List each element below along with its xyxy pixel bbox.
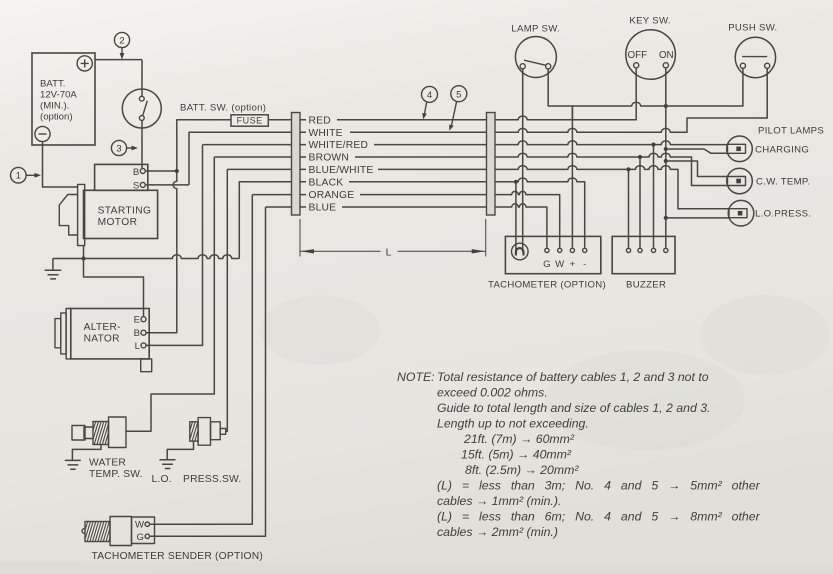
svg-text:WHITE/RED: WHITE/RED bbox=[309, 140, 369, 151]
terminal E of alternator bbox=[134, 315, 146, 326]
wire motor body down to ground line bbox=[83, 246, 85, 259]
svg-text:exceed 0.002 ohms.: exceed 0.002 ohms. bbox=[437, 386, 548, 400]
lamp switch bbox=[511, 24, 560, 78]
connector block right bbox=[487, 113, 496, 216]
wire ON to charging lamp lower lead bbox=[666, 149, 728, 153]
wire BLUE left stub bbox=[266, 206, 292, 208]
svg-text:Length up to not exceeding.: Length up to not exceeding. bbox=[437, 417, 589, 431]
tachometer box bbox=[505, 236, 600, 273]
svg-text:(option): (option) bbox=[40, 112, 73, 123]
wire BLUE/WHITE label segment bbox=[300, 165, 487, 176]
wire BLACK drop to tachometer lamp bbox=[515, 182, 517, 252]
svg-text:Guide to total length and size: Guide to total length and size of cables… bbox=[437, 401, 710, 415]
svg-text:1: 1 bbox=[16, 171, 21, 182]
wire WHITE right to push sw bbox=[495, 68, 767, 132]
svg-text:TACHOMETER (OPTION): TACHOMETER (OPTION) bbox=[488, 280, 606, 291]
wire sender G to BLUE drop bbox=[150, 207, 266, 536]
svg-text:BROWN: BROWN bbox=[309, 153, 349, 164]
svg-text:W: W bbox=[135, 520, 145, 531]
wire ORANGE right to tachometer W bbox=[495, 191, 560, 247]
tachometer sender body bbox=[79, 517, 155, 546]
wire BLUE right to tachometer G bbox=[495, 204, 547, 248]
svg-text:G: G bbox=[543, 259, 550, 270]
svg-text:(L) = less than 6m; No. 4 and: (L) = less than 6m; No. 4 and 5 → 8mm² o… bbox=[437, 510, 761, 524]
wire BROWN left stub bbox=[214, 156, 291, 158]
terminal B of starting motor bbox=[133, 167, 145, 178]
wire ORANGE left stub bbox=[252, 194, 291, 196]
svg-text:W: W bbox=[555, 259, 565, 270]
svg-text:LAMP SW.: LAMP SW. bbox=[511, 24, 560, 35]
wire switch bottom to starting motor B bbox=[141, 120, 143, 168]
svg-text:BLUE/WHITE: BLUE/WHITE bbox=[309, 165, 374, 176]
wire sender W to ORANGE drop bbox=[150, 195, 253, 525]
svg-text:4: 4 bbox=[427, 90, 432, 101]
wire BLUE/WHITE left stub bbox=[227, 168, 291, 170]
note text block bbox=[397, 370, 761, 539]
svg-text:15ft. (5m) → 40mm²: 15ft. (5m) → 40mm² bbox=[461, 448, 572, 462]
wire water temp sw to ground bbox=[72, 445, 101, 461]
wire W/R drop to buzzer t3 bbox=[653, 145, 655, 248]
starting motor main box bbox=[84, 190, 158, 238]
wire water temp sw to BROWN drop bbox=[126, 157, 214, 431]
starting motor nose housing bbox=[59, 195, 77, 236]
wire BLACK left riser from ground bus bbox=[239, 182, 291, 259]
wire L.O. press sw to ground bbox=[167, 441, 193, 460]
wire RED link drop to tachometer plus bbox=[571, 106, 573, 248]
svg-text:WHITE: WHITE bbox=[309, 128, 343, 139]
svg-text:FUSE: FUSE bbox=[237, 116, 263, 126]
wire L.O. press sw to BLUE/WHITE drop bbox=[226, 169, 228, 431]
ground symbol (L.O. press sw) bbox=[159, 460, 175, 469]
svg-text:3: 3 bbox=[116, 144, 121, 155]
svg-text:E: E bbox=[134, 315, 140, 326]
svg-text:C.W. TEMP.: C.W. TEMP. bbox=[756, 177, 810, 188]
terminal W of sender bbox=[135, 520, 150, 531]
svg-text:OFF: OFF bbox=[628, 50, 648, 61]
svg-text:21ft. (7m) → 60mm²: 21ft. (7m) → 60mm² bbox=[463, 432, 575, 446]
wire ON to C.W. temp lamp upper lead bbox=[666, 161, 728, 177]
svg-text:ALTER-: ALTER- bbox=[84, 322, 121, 333]
svg-text:BATT. SW. (option): BATT. SW. (option) bbox=[180, 103, 266, 114]
svg-text:(MIN.).: (MIN.). bbox=[40, 101, 69, 112]
terminal L of alternator bbox=[135, 341, 146, 352]
wire S terminal to WHITE bend bbox=[145, 184, 189, 186]
pilot lamp L.O. PRESS bbox=[728, 200, 754, 226]
callout node 2 bbox=[114, 32, 129, 59]
starting motor front bracket bbox=[78, 184, 85, 245]
svg-text:MOTOR: MOTOR bbox=[98, 217, 138, 228]
wire key ON vertical to buzzer bbox=[665, 68, 667, 248]
wire battery + to battery switch bbox=[95, 59, 142, 61]
wire lamp sw left drop to tachometer lamp bbox=[522, 69, 524, 252]
wire RED label segment bbox=[300, 115, 487, 126]
wire BLUE label segment bbox=[300, 203, 487, 214]
wire BLUE/WHITE right to L.O. press lamp bbox=[495, 166, 729, 209]
terminal S of starting motor bbox=[133, 181, 145, 192]
svg-text:cables → 1mm² (min.).: cables → 1mm² (min.). bbox=[437, 494, 561, 508]
svg-text:cables → 2mm² (min.): cables → 2mm² (min.) bbox=[437, 525, 558, 539]
callout wire 4 bbox=[422, 86, 438, 119]
wire WHITE/RED right to charging lamp bbox=[495, 141, 728, 145]
buzzer box bbox=[612, 236, 675, 273]
battery BATT. 12V-70A box bbox=[32, 53, 95, 145]
svg-text:RED: RED bbox=[309, 115, 331, 126]
junction dot B bbox=[175, 169, 179, 173]
wire link RED to switch bus bbox=[571, 106, 573, 120]
wire ON to L.O. press lamp lower lead bbox=[666, 217, 729, 219]
alternator box bbox=[71, 309, 149, 359]
svg-text:NOTE:: NOTE: bbox=[397, 370, 435, 384]
key switch bbox=[626, 16, 676, 80]
wire switch top to + wire bbox=[141, 60, 143, 97]
wire RED drop: junction up through fuse line bbox=[177, 120, 292, 171]
alternator mounting foot bbox=[141, 359, 152, 372]
paper mottling bbox=[260, 295, 830, 450]
wire BROWN label segment bbox=[300, 153, 487, 164]
callout wire 5 bbox=[449, 86, 467, 131]
svg-text:TACHOMETER SENDER (OPTION): TACHOMETER SENDER (OPTION) bbox=[92, 551, 263, 562]
svg-text:CHARGING: CHARGING bbox=[755, 144, 809, 155]
terminal G of sender bbox=[137, 532, 150, 543]
wire WHITE left riser bbox=[189, 132, 292, 185]
wire junction B down to alternator B (hop over S wire) bbox=[146, 171, 177, 333]
wire WHITE/RED left stub bbox=[203, 144, 292, 146]
wire B terminal to junction bbox=[145, 170, 177, 172]
battery switch (rotary) bbox=[122, 89, 161, 128]
L.O. pressure switch body bbox=[184, 418, 226, 446]
svg-text:+: + bbox=[570, 259, 576, 270]
junction dot BLACK to tacho lamp bbox=[514, 180, 518, 184]
wire ground junction to alternator E bbox=[84, 259, 144, 317]
wire RED right to key sw OFF bbox=[495, 68, 636, 120]
svg-text:BLACK: BLACK bbox=[309, 177, 344, 188]
callout node 3 bbox=[111, 140, 138, 155]
wire BLACK label segment bbox=[300, 177, 487, 188]
water temp switch body bbox=[72, 417, 126, 448]
svg-text:WATER: WATER bbox=[89, 458, 126, 469]
svg-text:Total resistance of battery ca: Total resistance of battery cables 1, 2 … bbox=[437, 370, 709, 384]
svg-text:2: 2 bbox=[119, 36, 124, 47]
wire WHITE/RED label segment bbox=[300, 140, 487, 151]
fuse F1 bbox=[231, 115, 268, 126]
callout node 1 bbox=[10, 167, 41, 183]
svg-text:L: L bbox=[386, 246, 392, 258]
svg-text:BATT.: BATT. bbox=[40, 79, 65, 90]
svg-text:B: B bbox=[134, 328, 140, 339]
ground symbol (water temp sw) bbox=[65, 460, 81, 469]
wire BLUE/WHITE drop to buzzer t1 bbox=[628, 169, 630, 248]
svg-text:PUSH SW.: PUSH SW. bbox=[728, 23, 777, 34]
wire ORANGE label segment bbox=[300, 190, 487, 201]
svg-text:TEMP. SW.: TEMP. SW. bbox=[89, 469, 143, 480]
starting motor terminal box bbox=[95, 164, 148, 190]
pilot lamp C.W. TEMP bbox=[727, 168, 753, 194]
wire BLACK right to tachometer minus bbox=[495, 178, 585, 248]
svg-text:PILOT LAMPS: PILOT LAMPS bbox=[758, 126, 824, 137]
wire alternator L to WHITE/RED drop bbox=[146, 145, 203, 346]
wire BROWN drop to buzzer t2 bbox=[639, 157, 641, 248]
svg-text:S: S bbox=[133, 181, 139, 192]
svg-text:PRESS.SW.: PRESS.SW. bbox=[183, 474, 241, 485]
junction dot bus to key ON bbox=[664, 104, 668, 108]
connector block left bbox=[292, 113, 301, 216]
wire BROWN right to C.W. temp lamp bbox=[495, 153, 728, 185]
alternator pulley slabs bbox=[55, 309, 71, 359]
svg-text:ORANGE: ORANGE bbox=[309, 190, 355, 201]
svg-text:G: G bbox=[137, 532, 144, 543]
svg-text:B: B bbox=[133, 167, 139, 178]
svg-text:KEY SW.: KEY SW. bbox=[629, 16, 670, 27]
battery + terminal bbox=[77, 56, 92, 71]
svg-text:5: 5 bbox=[456, 89, 461, 100]
svg-text:L.O.: L.O. bbox=[152, 474, 172, 485]
dimension line L bbox=[300, 219, 486, 258]
svg-text:(L) = less than 3m; No. 4 and: (L) = less than 3m; No. 4 and 5 → 5mm² o… bbox=[437, 479, 761, 493]
svg-text:BLUE: BLUE bbox=[309, 203, 337, 214]
ground bus line with hops bbox=[53, 255, 239, 259]
push switch bbox=[728, 23, 777, 78]
ground symbol (starting motor) bbox=[45, 259, 62, 279]
terminal B of alternator bbox=[134, 328, 146, 339]
junction dot ground bbox=[81, 256, 85, 260]
pilot lamp CHARGING bbox=[727, 136, 753, 162]
wire WHITE label segment bbox=[300, 128, 487, 139]
svg-text:STARTING: STARTING bbox=[98, 206, 152, 217]
svg-text:ON: ON bbox=[659, 50, 674, 61]
svg-text:12V-70A: 12V-70A bbox=[40, 90, 77, 101]
battery - terminal bbox=[35, 126, 50, 141]
svg-text:BUZZER: BUZZER bbox=[626, 280, 666, 291]
svg-text:L: L bbox=[135, 341, 141, 352]
svg-text:8ft. (2.5m) → 20mm²: 8ft. (2.5m) → 20mm² bbox=[465, 463, 579, 477]
wire switch bus lamp/key/push bbox=[548, 68, 743, 106]
wire battery - down and to starting motor body (cable 1) bbox=[43, 142, 79, 187]
svg-text:NATOR: NATOR bbox=[84, 334, 120, 345]
svg-text:L.O.PRESS.: L.O.PRESS. bbox=[755, 209, 811, 220]
svg-text:-: - bbox=[583, 259, 586, 270]
